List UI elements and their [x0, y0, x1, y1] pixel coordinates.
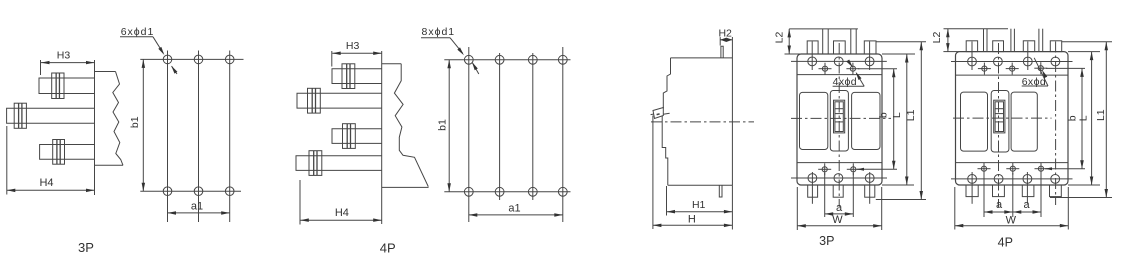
3P front view: horizontal centreline (dash-dot): [791, 117, 891, 119]
3P front view: pole window right: [852, 92, 880, 149]
3P drill plan: hole centre verticals: [167, 51, 169, 223]
svg-text:b1: b1: [129, 116, 141, 128]
3P drill plan: bottom hole row line: [140, 190, 241, 192]
svg-text:3P: 3P: [819, 234, 834, 248]
dimension W (4P front): [954, 187, 956, 230]
4P front view: bottom screw row line: [951, 178, 1073, 180]
terminal stud 2 (middle) bar: [7, 108, 95, 123]
4P front view: pole window right: [1011, 92, 1037, 151]
3P front view: interphase barriers (top): [822, 29, 824, 54]
3P front view: bottom strip upper line: [797, 162, 882, 164]
svg-text:L: L: [891, 112, 903, 118]
4P front view: pole window left: [961, 92, 988, 151]
dimension b1 (3P drill plan): [142, 59, 144, 191]
svg-text:W: W: [832, 214, 843, 226]
svg-text:b1: b1: [436, 119, 448, 131]
4P front view: operating mechanism: [994, 100, 1005, 133]
terminal stud 1 (top) bar: [39, 78, 95, 94]
4P front view: vertical centreline pole 4 (dash-dot): [1055, 42, 1057, 206]
svg-text:H1: H1: [692, 199, 706, 211]
3P side view: break line (zigzag right edge): [113, 72, 123, 166]
4P front view: mounting holes (top): [982, 66, 987, 71]
svg-text:L2: L2: [931, 32, 943, 44]
svg-text:H: H: [688, 213, 696, 225]
4P front view: pole centrelines (bottom): [971, 172, 973, 204]
terminal stud 3 (4P) bar: [332, 129, 382, 144]
4P front view: interphase barriers (top): [983, 29, 985, 52]
4P side view: break line (zigzag right edge): [394, 64, 428, 187]
terminal stud 2 (4P) clamp plate: [308, 88, 321, 113]
dimension L1 (4P front): [1062, 41, 1112, 43]
3P drill plan: holes (6x): [163, 55, 172, 64]
4P front view: bottom terminal screws: [968, 175, 977, 184]
dimension H4 (4P): [299, 180, 301, 225]
terminal stud 2 (middle) clamp plate: [14, 103, 26, 128]
3P front view: mounting holes (bottom): [822, 167, 827, 172]
dimension W (3P front): [796, 187, 798, 230]
callout second arrow at hole (3P): [172, 66, 177, 74]
4P drill plan: hole centre verticals: [468, 47, 470, 222]
3P front view: mounting holes (top): [822, 66, 827, 71]
profile view: top terminal tab: [721, 46, 723, 58]
terminal stud 1 (4P) clamp plate: [342, 64, 355, 89]
4P front view: bottom strip upper line: [956, 162, 1069, 164]
profile view: stepped left edge: [663, 58, 670, 108]
4P front view: pole centrelines (top): [971, 42, 973, 71]
terminal stud 2 (4P) bolt: [311, 88, 313, 113]
svg-text:L: L: [1077, 115, 1089, 121]
terminal stud 3 (bottom) bolt: [56, 140, 58, 165]
terminal stud 1 (top) clamp plate: [52, 73, 64, 99]
3P front view: pole centrelines (top): [811, 42, 813, 71]
callout second arrow at mounting hole (3P front): [848, 60, 852, 66]
svg-text:L1: L1: [905, 109, 917, 121]
profile view: bottom terminal pin: [719, 185, 722, 197]
profile view: front face / H extension line: [652, 116, 654, 230]
3P front view: bottom terminal screws: [808, 174, 817, 183]
terminal stud 2 (middle) bolt: [18, 103, 20, 128]
dimension L (4P front): [1068, 51, 1100, 53]
terminal stud 3 (bottom) bar: [40, 145, 95, 160]
svg-text:H4: H4: [39, 177, 53, 189]
svg-text:a1: a1: [508, 203, 520, 215]
dimension H3 (4P): [331, 51, 333, 67]
terminal stud 4 (4P) bar: [296, 156, 382, 171]
svg-text:a: a: [996, 199, 1003, 211]
3P front view: operating mechanism: [834, 100, 845, 133]
svg-text:H2: H2: [718, 27, 732, 39]
svg-text:a1: a1: [191, 201, 203, 213]
4P front view: vertical centreline pole 2 (dash-dot): [998, 43, 1000, 207]
dimension a1 (4P drill plan): [469, 214, 563, 216]
terminal stud 1 (top) bolt: [55, 73, 57, 99]
svg-text:H3: H3: [346, 40, 360, 52]
4P front view: bottom terminal studs: [966, 185, 978, 197]
3P front view: barrier top line / L2 extension: [789, 28, 858, 30]
svg-text:3P: 3P: [78, 240, 94, 255]
3P front view: body outline: [797, 54, 882, 185]
4P front view: horizontal centreline (dash-dot): [953, 117, 1052, 119]
svg-text:L1: L1: [1095, 109, 1107, 121]
profile view: body outline: [668, 37, 733, 185]
terminal stud 1 (4P) bolt: [346, 64, 348, 89]
3P front view: pole window left: [800, 92, 828, 149]
4P front view: top terminal blocks: [966, 41, 977, 52]
dimension L2 (4P): [943, 51, 959, 53]
dimension L2 (3P): [785, 53, 801, 55]
4P front view: body outline: [956, 52, 1069, 185]
4P front view: pole window centre: [991, 91, 1009, 153]
4P front view: mounting holes (bottom): [981, 166, 986, 171]
svg-text:L2: L2: [773, 32, 785, 44]
3P front view: top strip lower line: [797, 74, 882, 76]
terminal stud 1 (4P) bar: [332, 69, 382, 84]
terminal stud 3 (4P) bolt: [346, 124, 348, 149]
3P front view: bottom screw row line: [791, 177, 887, 179]
4P front view: top strip lower line: [956, 74, 1069, 76]
dimension H2: [719, 37, 721, 45]
3P drill plan: top hole row line: [140, 58, 243, 60]
svg-text:H4: H4: [335, 207, 349, 219]
3P front view: top terminal blocks: [807, 41, 818, 54]
dimension H3 (3P): [40, 60, 42, 75]
3P front view: bottom terminal studs: [808, 185, 818, 197]
dimension H: [653, 224, 733, 226]
dimension b1 (4P drill plan): [448, 60, 450, 192]
dimension H1: [666, 186, 668, 216]
dimension a a (4P front): [983, 173, 985, 217]
callout second arrow at hole (4P): [473, 63, 479, 74]
4P front view: top screw row line: [951, 61, 1073, 63]
svg-text:H3: H3: [57, 50, 71, 62]
svg-text:a: a: [1024, 199, 1031, 211]
3P front view: pole window centre: [830, 91, 848, 152]
terminal stud 4 (4P) bolt: [313, 151, 315, 176]
dimension L (3P front): [882, 53, 915, 55]
terminal stud 2 (4P) bar: [297, 93, 382, 108]
terminal stud 3 (bottom) clamp plate: [53, 140, 65, 165]
3P front view: vertical centreline (dash-dot): [838, 43, 840, 207]
3P front view: top screw row line: [791, 60, 887, 62]
profile view: horizontal centreline (dash-dot): [651, 121, 754, 123]
terminal stud 3 (4P) clamp plate: [343, 124, 356, 149]
svg-text:4P: 4P: [998, 235, 1013, 249]
svg-text:4P: 4P: [380, 240, 396, 255]
4P drill plan: holes (8x): [464, 55, 473, 64]
profile view: lower-left stepped edge: [662, 116, 668, 185]
svg-text:W: W: [1006, 214, 1017, 226]
3P front view: top terminal screws: [808, 57, 817, 66]
terminal stud 4 (4P) clamp plate: [309, 151, 322, 176]
4P drill plan: bottom hole row line: [444, 191, 570, 193]
3P side view: breaker body (broken-out strip): [95, 60, 124, 195]
dimension b (3P front): [858, 68, 897, 70]
dimension b (4P front): [1046, 67, 1085, 69]
dimension a1 (3P drill plan): [168, 212, 230, 214]
3P front view: pole centrelines (bottom): [811, 172, 813, 204]
dimension a (3P front): [824, 173, 826, 217]
svg-text:8xϕd1: 8xϕd1: [422, 26, 456, 38]
svg-text:b: b: [878, 112, 890, 118]
4P side view: breaker body (broken-out strip): [382, 51, 429, 224]
svg-text:6xϕd1: 6xϕd1: [121, 26, 155, 38]
dimension L1 (3P front): [876, 41, 926, 43]
4P front view: barrier top line / L2 extension: [944, 28, 1009, 30]
dimension H4 (3P): [6, 126, 8, 195]
profile view: operating handle: [653, 108, 663, 119]
svg-text:a: a: [836, 202, 843, 214]
4P front view: top terminal screws: [968, 57, 977, 66]
4P drill plan: top hole row line: [444, 59, 570, 61]
